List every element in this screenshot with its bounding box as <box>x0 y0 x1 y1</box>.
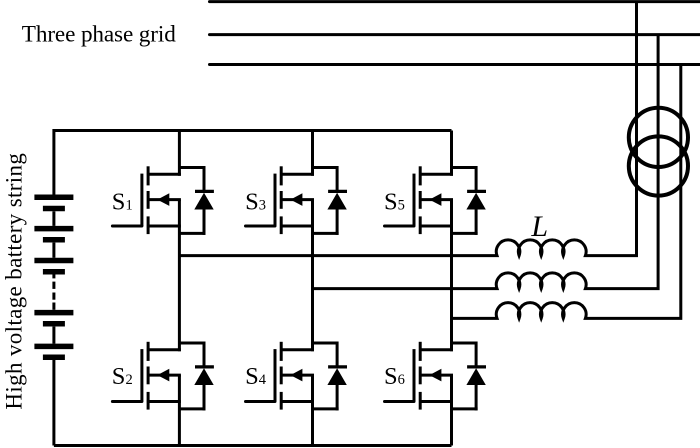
svg-text:Three phase grid: Three phase grid <box>22 21 176 47</box>
svg-text:High voltage battery string: High voltage battery string <box>1 153 26 410</box>
svg-text:L: L <box>530 210 548 243</box>
